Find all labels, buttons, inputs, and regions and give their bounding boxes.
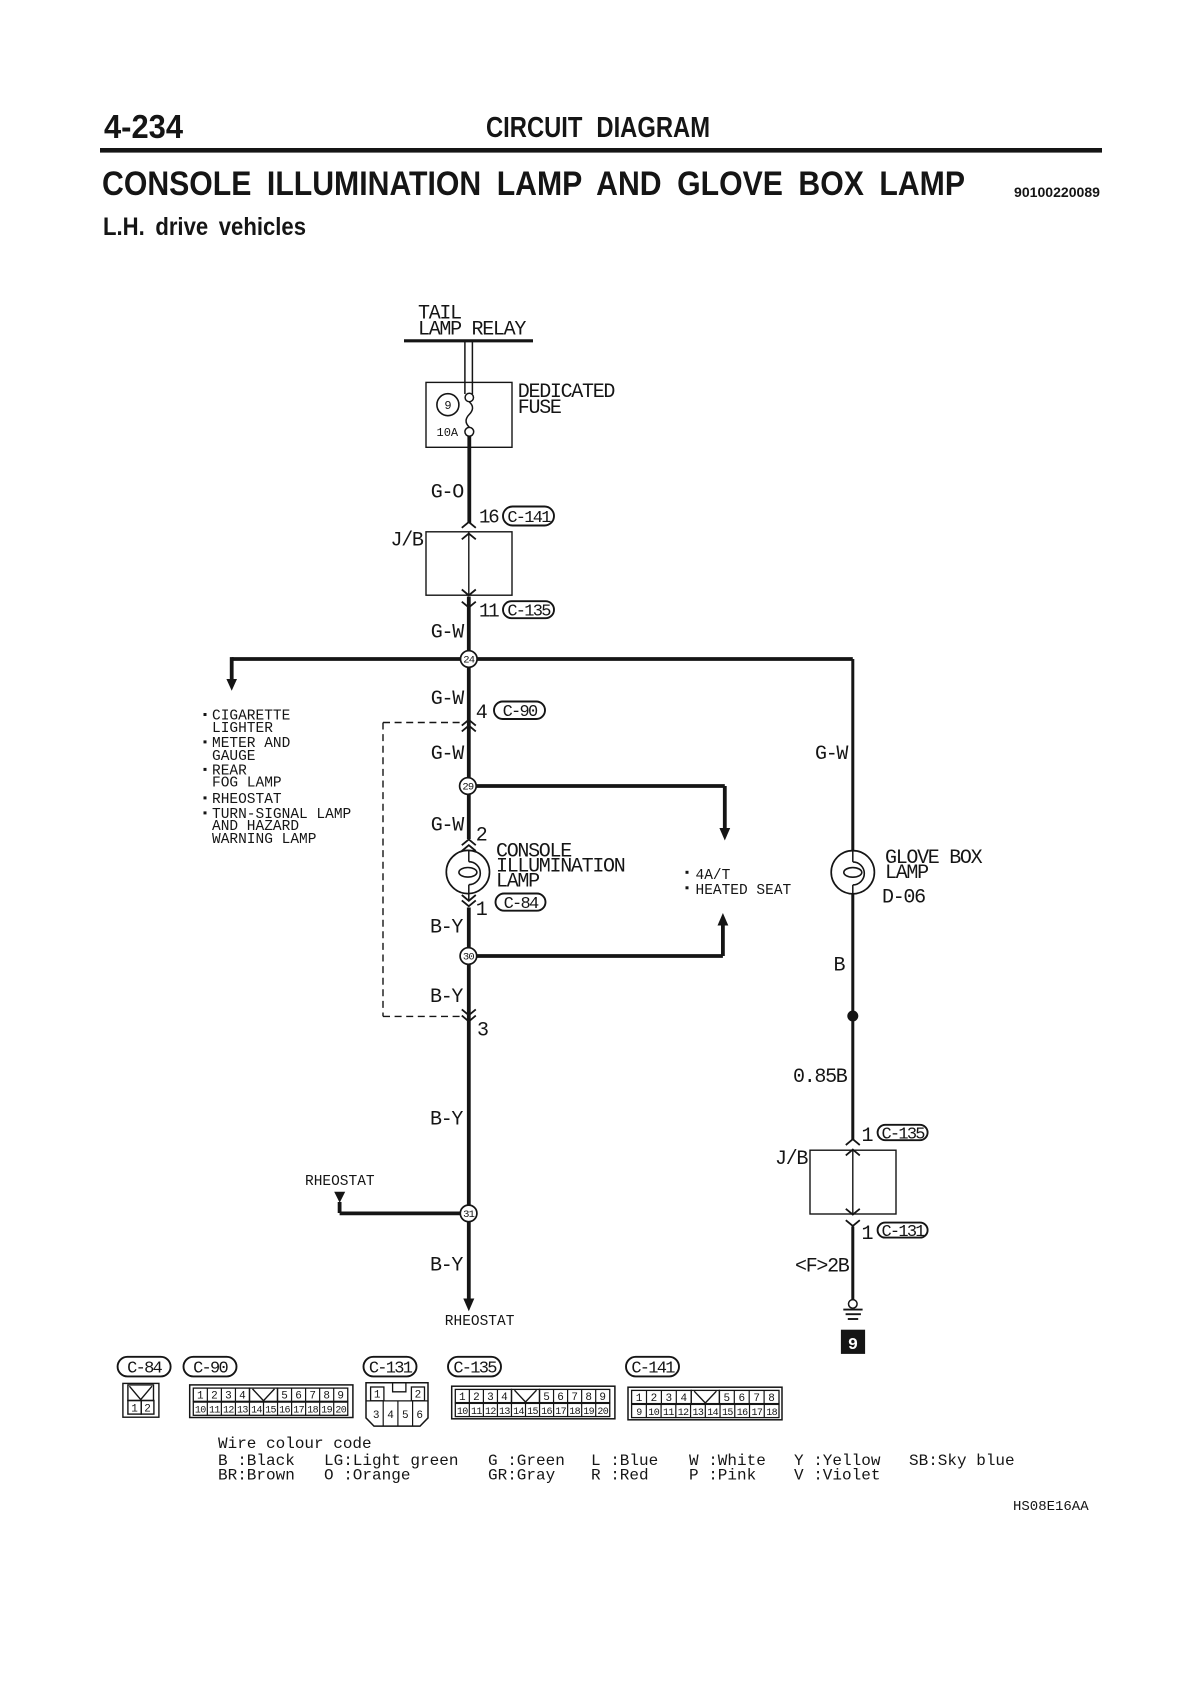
svg-text:20: 20 bbox=[597, 1407, 608, 1418]
svg-text:0.85B: 0.85B bbox=[793, 1066, 848, 1089]
svg-text:14: 14 bbox=[707, 1408, 718, 1419]
svg-text:J/B: J/B bbox=[775, 1148, 808, 1171]
svg-text:B-Y: B-Y bbox=[430, 916, 463, 939]
svg-text:3: 3 bbox=[666, 1393, 673, 1405]
svg-text:G-W: G-W bbox=[815, 743, 848, 766]
svg-text:6: 6 bbox=[557, 1392, 564, 1404]
svg-text:LAMP RELAY: LAMP RELAY bbox=[418, 319, 526, 342]
svg-text:10: 10 bbox=[457, 1407, 468, 1418]
svg-text:4A/T: 4A/T bbox=[696, 868, 731, 884]
svg-text:4-234: 4-234 bbox=[104, 108, 184, 145]
svg-text:B-Y: B-Y bbox=[430, 1108, 463, 1131]
svg-text:C-84: C-84 bbox=[127, 1360, 162, 1379]
svg-text:GR:Gray: GR:Gray bbox=[488, 1466, 556, 1484]
svg-text:FUSE: FUSE bbox=[518, 397, 561, 420]
svg-text:30: 30 bbox=[463, 952, 475, 964]
svg-text:C-141: C-141 bbox=[631, 1360, 675, 1379]
svg-text:2: 2 bbox=[476, 824, 487, 847]
svg-text:G-O: G-O bbox=[431, 481, 463, 504]
svg-text:G-W: G-W bbox=[431, 814, 464, 837]
svg-text:C-131: C-131 bbox=[369, 1360, 413, 1379]
svg-text:18: 18 bbox=[766, 1408, 777, 1419]
svg-text:L.H. drive vehicles: L.H. drive vehicles bbox=[103, 213, 306, 241]
svg-text:SB:Sky blue: SB:Sky blue bbox=[909, 1452, 1015, 1470]
svg-text:3: 3 bbox=[225, 1391, 232, 1403]
svg-text:RHEOSTAT: RHEOSTAT bbox=[212, 792, 282, 808]
svg-text:C-90: C-90 bbox=[503, 703, 538, 722]
svg-text:6: 6 bbox=[416, 1410, 423, 1422]
svg-text:10: 10 bbox=[195, 1406, 206, 1417]
svg-text:15: 15 bbox=[527, 1407, 538, 1418]
svg-text:15: 15 bbox=[265, 1406, 276, 1417]
svg-text:LAMP: LAMP bbox=[496, 871, 539, 894]
svg-text:17: 17 bbox=[293, 1406, 304, 1417]
svg-text:17: 17 bbox=[555, 1407, 566, 1418]
svg-text:CIRCUIT DIAGRAM: CIRCUIT DIAGRAM bbox=[486, 112, 710, 144]
svg-text:C-84: C-84 bbox=[504, 895, 539, 914]
svg-text:13: 13 bbox=[237, 1406, 248, 1417]
svg-text:LIGHTER: LIGHTER bbox=[212, 721, 273, 737]
svg-text:4: 4 bbox=[387, 1410, 394, 1422]
svg-text:8: 8 bbox=[768, 1393, 775, 1405]
svg-text:11: 11 bbox=[209, 1406, 220, 1417]
svg-text:15: 15 bbox=[722, 1408, 733, 1419]
svg-text:C-131: C-131 bbox=[881, 1223, 925, 1242]
svg-text:G-W: G-W bbox=[431, 621, 464, 644]
svg-text:G-W: G-W bbox=[431, 688, 464, 711]
svg-text:31: 31 bbox=[463, 1209, 475, 1221]
svg-text:RHEOSTAT: RHEOSTAT bbox=[445, 1314, 515, 1330]
svg-text:1: 1 bbox=[131, 1404, 138, 1416]
svg-text:9: 9 bbox=[599, 1392, 606, 1404]
svg-text:18: 18 bbox=[307, 1406, 318, 1417]
svg-text:FOG LAMP: FOG LAMP bbox=[212, 776, 282, 792]
svg-text:19: 19 bbox=[583, 1407, 594, 1418]
svg-text:9: 9 bbox=[848, 1336, 858, 1355]
svg-text:C-135: C-135 bbox=[881, 1125, 925, 1144]
svg-text:1: 1 bbox=[459, 1392, 466, 1404]
svg-text:12: 12 bbox=[485, 1407, 496, 1418]
svg-text:6: 6 bbox=[738, 1393, 745, 1405]
svg-text:5: 5 bbox=[402, 1410, 409, 1422]
svg-text:G-W: G-W bbox=[431, 743, 464, 766]
svg-text:8: 8 bbox=[323, 1391, 330, 1403]
svg-text:11: 11 bbox=[663, 1408, 674, 1419]
svg-text:12: 12 bbox=[678, 1408, 689, 1419]
svg-text:4: 4 bbox=[680, 1393, 687, 1405]
svg-text:2: 2 bbox=[415, 1390, 422, 1402]
svg-text:J/B: J/B bbox=[391, 530, 424, 553]
svg-text:8: 8 bbox=[585, 1392, 592, 1404]
svg-text:D-06: D-06 bbox=[882, 886, 925, 909]
svg-text:29: 29 bbox=[462, 782, 474, 794]
svg-text:Wire colour code: Wire colour code bbox=[218, 1435, 372, 1453]
svg-text:10A: 10A bbox=[437, 426, 459, 440]
svg-text:11: 11 bbox=[479, 600, 499, 622]
svg-text:5: 5 bbox=[724, 1393, 731, 1405]
svg-text:16: 16 bbox=[279, 1406, 290, 1417]
svg-text:7: 7 bbox=[753, 1393, 760, 1405]
svg-text:C-141: C-141 bbox=[507, 509, 551, 528]
svg-text:4: 4 bbox=[239, 1391, 246, 1403]
svg-text:C-90: C-90 bbox=[193, 1360, 228, 1379]
svg-text:V :Violet: V :Violet bbox=[794, 1466, 880, 1484]
svg-text:R :Red: R :Red bbox=[591, 1466, 649, 1484]
svg-text:HS08E16AA: HS08E16AA bbox=[1013, 1499, 1089, 1515]
svg-text:16: 16 bbox=[737, 1408, 748, 1419]
svg-text:11: 11 bbox=[471, 1407, 482, 1418]
svg-text:1: 1 bbox=[374, 1390, 381, 1402]
svg-text:16: 16 bbox=[541, 1407, 552, 1418]
svg-text:12: 12 bbox=[223, 1406, 234, 1417]
svg-text:4: 4 bbox=[501, 1392, 508, 1404]
svg-text:1: 1 bbox=[862, 1223, 874, 1246]
svg-text:3: 3 bbox=[487, 1392, 494, 1404]
svg-text:WARNING LAMP: WARNING LAMP bbox=[212, 832, 316, 848]
svg-text:19: 19 bbox=[321, 1406, 332, 1417]
svg-text:LAMP: LAMP bbox=[885, 862, 928, 885]
svg-text:20: 20 bbox=[335, 1406, 346, 1417]
svg-text:1: 1 bbox=[862, 1125, 874, 1148]
svg-text:2: 2 bbox=[651, 1393, 658, 1405]
svg-text:RHEOSTAT: RHEOSTAT bbox=[305, 1174, 375, 1190]
svg-text:1: 1 bbox=[476, 899, 488, 922]
svg-text:9: 9 bbox=[337, 1391, 344, 1403]
svg-text:5: 5 bbox=[281, 1391, 288, 1403]
svg-text:2: 2 bbox=[473, 1392, 480, 1404]
svg-text:3: 3 bbox=[373, 1410, 380, 1422]
svg-text:9: 9 bbox=[444, 399, 451, 413]
svg-text:24: 24 bbox=[463, 655, 475, 667]
svg-text:O :Orange: O :Orange bbox=[324, 1466, 410, 1484]
svg-text:CONSOLE ILLUMINATION LAMP AND: CONSOLE ILLUMINATION LAMP AND GLOVE BOX … bbox=[102, 165, 965, 203]
svg-text:18: 18 bbox=[569, 1407, 580, 1418]
svg-text:14: 14 bbox=[513, 1407, 524, 1418]
svg-text:<F>2B: <F>2B bbox=[795, 1255, 850, 1278]
svg-text:7: 7 bbox=[571, 1392, 578, 1404]
svg-text:6: 6 bbox=[295, 1391, 302, 1403]
svg-text:14: 14 bbox=[251, 1406, 262, 1417]
svg-text:B: B bbox=[834, 954, 846, 977]
svg-text:16: 16 bbox=[479, 506, 499, 528]
svg-text:4: 4 bbox=[476, 702, 487, 725]
svg-text:9: 9 bbox=[636, 1408, 642, 1419]
svg-text:13: 13 bbox=[499, 1407, 510, 1418]
svg-text:2: 2 bbox=[211, 1391, 218, 1403]
svg-text:1: 1 bbox=[636, 1393, 643, 1405]
svg-text:1: 1 bbox=[197, 1391, 204, 1403]
svg-text:B-Y: B-Y bbox=[430, 1254, 463, 1277]
svg-text:7: 7 bbox=[309, 1391, 316, 1403]
svg-text:B-Y: B-Y bbox=[430, 986, 463, 1009]
svg-text:C-135: C-135 bbox=[453, 1360, 497, 1379]
svg-text:3: 3 bbox=[477, 1019, 488, 1042]
svg-text:2: 2 bbox=[144, 1404, 151, 1416]
svg-text:BR:Brown: BR:Brown bbox=[218, 1466, 295, 1484]
svg-text:C-135: C-135 bbox=[507, 603, 551, 622]
svg-text:P :Pink: P :Pink bbox=[689, 1466, 756, 1484]
svg-text:13: 13 bbox=[693, 1408, 704, 1419]
svg-text:90100220089: 90100220089 bbox=[1014, 185, 1100, 200]
svg-text:10: 10 bbox=[648, 1408, 659, 1419]
svg-text:17: 17 bbox=[751, 1408, 762, 1419]
svg-text:HEATED SEAT: HEATED SEAT bbox=[696, 883, 792, 899]
svg-text:5: 5 bbox=[543, 1392, 550, 1404]
